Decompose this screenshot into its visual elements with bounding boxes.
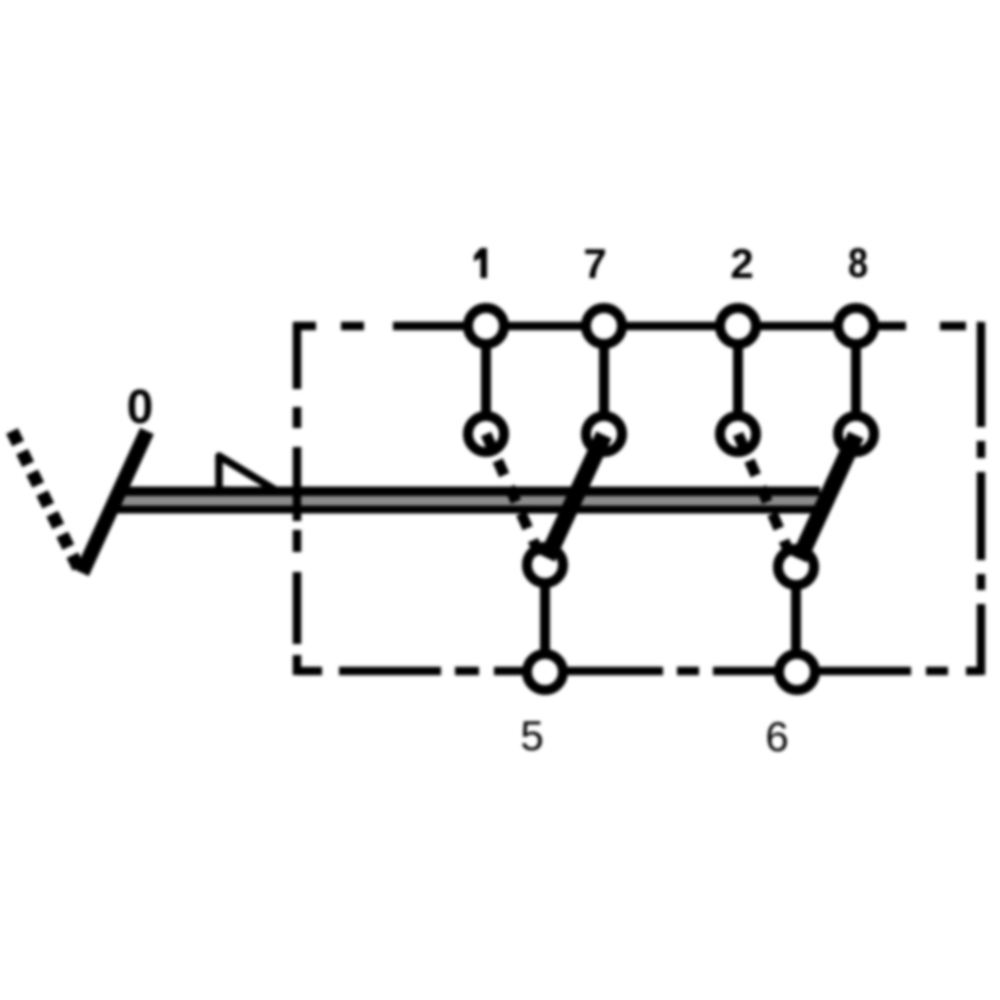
solid bridge contact 7 to node 5	[547, 435, 604, 558]
lever solid arm position 0	[82, 431, 147, 573]
terminal 2 circle	[720, 308, 756, 344]
svg-text:8: 8	[848, 239, 868, 286]
wire terminal 1 to contact	[481, 326, 491, 434]
actuator bar top line	[116, 487, 820, 497]
solid bridge contact 8 to node 6	[799, 435, 856, 559]
label 1	[474, 248, 487, 278]
wire common node to terminal 5	[540, 565, 550, 672]
dashed bridge contact 1 to node 5	[486, 434, 544, 565]
wire terminal 8 to contact	[851, 326, 861, 434]
dash-dot enclosure top edge	[294, 322, 981, 331]
wire common node to terminal 6	[791, 567, 801, 672]
wire terminal 2 to contact	[733, 326, 743, 434]
contact 2 lower circle	[720, 416, 756, 452]
svg-text:0: 0	[127, 381, 154, 434]
terminal 5 circle	[527, 654, 563, 690]
terminal 1 circle	[468, 308, 504, 344]
actuator bar gray band	[116, 496, 820, 506]
wire terminal 7 to contact	[599, 326, 609, 434]
terminal 6 circle	[779, 654, 815, 690]
common node circle left	[527, 547, 563, 583]
common node circle right	[778, 549, 814, 585]
dash-dot enclosure right edge	[977, 322, 986, 675]
svg-text:5: 5	[520, 712, 543, 759]
terminal 7 circle	[586, 308, 622, 344]
contact 1 lower circle	[468, 416, 504, 452]
svg-text:6: 6	[765, 713, 788, 760]
terminal 8 circle	[838, 308, 874, 344]
triangle flag on actuator bar	[219, 456, 277, 491]
actuator bar bottom line	[116, 506, 820, 514]
contact 7 lower circle	[586, 416, 622, 452]
lever dashed arm alternate position	[12, 431, 80, 571]
dash-dot enclosure left edge	[293, 322, 302, 675]
svg-text:7: 7	[583, 240, 606, 287]
dashed bridge contact 2 to node 6	[738, 434, 795, 566]
contact 8 lower circle	[838, 416, 874, 452]
svg-text:2: 2	[730, 240, 753, 287]
dash-dot enclosure bottom edge	[297, 667, 981, 676]
